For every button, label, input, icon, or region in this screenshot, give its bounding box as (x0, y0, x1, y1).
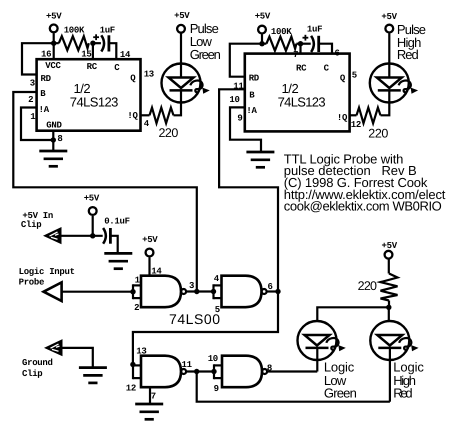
wire C3 to ground (110, 236, 117, 253)
svg-text:9: 9 (214, 384, 219, 394)
svg-text:12: 12 (126, 383, 136, 393)
svg-text:4: 4 (214, 274, 220, 284)
svg-text:15: 15 (81, 49, 91, 59)
svg-text:+5V: +5V (174, 11, 190, 21)
wire pin 1 A to ground (21, 108, 53, 141)
+5V terminal T6 pin 14 (142, 235, 158, 256)
wire node 11 to U3D (187, 370, 214, 372)
wire T1 to node (53, 33, 55, 43)
svg-text:+5V: +5V (255, 12, 271, 22)
+5V terminal T4 (381, 12, 397, 33)
wire R4 to LED D2 (381, 91, 390, 116)
svg-text:2: 2 (134, 303, 139, 313)
wire T7 to R5 (388, 259, 390, 273)
Logic Input Probe connector A2 (19, 267, 75, 301)
junction node 3 (194, 289, 199, 294)
wire U3D output to LED D3 (268, 370, 318, 372)
svg-text:100K: 100K (64, 26, 85, 36)
svg-text:1uF: 1uF (100, 26, 115, 36)
resistor R3 100K (266, 27, 296, 51)
wire pin 9 A to ground (230, 107, 261, 152)
svg-text:Q: Q (130, 73, 136, 83)
wire node to RD pin 11 (230, 44, 267, 77)
wire LED D3 cathode (316, 348, 318, 371)
svg-text:RC: RC (296, 64, 307, 74)
svg-text:RD: RD (249, 74, 260, 84)
svg-text:+5V: +5V (46, 12, 62, 22)
svg-text:+5V: +5V (381, 12, 397, 22)
svg-text:16: 16 (41, 49, 51, 59)
wire pin 12 (350, 114, 357, 116)
wire C1 to pin 14 (109, 43, 116, 59)
ground under U1 (39, 151, 67, 166)
svg-text:!Q: !Q (127, 111, 138, 121)
svg-text:2: 2 (28, 95, 33, 105)
svg-text:7: 7 (151, 391, 156, 401)
wire pin 15 (92, 43, 94, 59)
svg-text:74LS123: 74LS123 (70, 95, 119, 110)
capacitor C2 1uF (301, 25, 323, 52)
wire pin 2 B to node 3 feeder (13, 92, 197, 292)
svg-text:!Q: !Q (337, 113, 348, 123)
svg-text:220: 220 (358, 279, 377, 293)
svg-text:+5V: +5V (84, 194, 100, 204)
svg-text:!A: !A (246, 106, 257, 116)
wire U3C pin 7 to ground (149, 387, 151, 404)
Ground Clip connector A3 (22, 339, 63, 379)
svg-text:Probe: Probe (19, 278, 45, 288)
svg-text:Red: Red (397, 47, 419, 62)
wire T5 to bypass node (92, 216, 94, 236)
svg-text:!A: !A (39, 105, 50, 115)
svg-text:Ground: Ground (22, 358, 53, 368)
svg-text:9: 9 (237, 113, 242, 123)
wire A1 to C3 (62, 235, 103, 237)
nand gate U3A (133, 275, 194, 313)
svg-text:Clip: Clip (22, 369, 42, 379)
wire T2 to LED D1 (180, 33, 182, 78)
title text block (284, 151, 446, 213)
wire node 3 to U3B (187, 290, 214, 292)
wire T6 to U3A pin 14 (148, 257, 150, 276)
wire node 11 to LED D4 bottom (197, 372, 390, 402)
wire node 6 to U3C input (133, 292, 278, 365)
nand gate U3C (126, 347, 193, 394)
svg-text:Q: Q (340, 74, 346, 84)
+5V terminal T1 (46, 12, 62, 33)
junction node 11 (194, 369, 199, 374)
+5V In Clip connector A1 (21, 211, 62, 244)
capacitor C3 0.1uF (103, 216, 130, 243)
wire U3B output to node 6 (267, 290, 278, 292)
junction U3B input (211, 289, 216, 294)
wire T3 to node (261, 34, 263, 43)
wire T4 to LED D2 (388, 33, 390, 78)
svg-text:GND: GND (46, 121, 62, 131)
wire A3 to ground (63, 348, 93, 367)
+5V terminal T2 (174, 11, 190, 33)
resistor R4 220 (357, 108, 389, 141)
junction node 6 (275, 289, 280, 294)
junction U3A input (130, 289, 135, 294)
svg-text:C: C (324, 64, 330, 74)
wire pin 4 (141, 114, 150, 116)
LED D1 Pulse Low Green (162, 21, 221, 102)
svg-text:B: B (249, 90, 255, 100)
svg-text:3: 3 (189, 281, 194, 291)
+5V terminal T3 (255, 12, 271, 34)
wire pin 8 GND (52, 130, 54, 152)
svg-text:74LS123: 74LS123 (278, 95, 326, 110)
op-amp U2 box 74LS123 second half (245, 54, 350, 132)
svg-text:0.1uF: 0.1uF (104, 216, 130, 226)
svg-text:4: 4 (144, 119, 150, 129)
resistor R2 220 (150, 108, 179, 140)
wire probe to gate U3A (62, 291, 133, 293)
junction U3D input (211, 369, 216, 374)
svg-text:100K: 100K (271, 27, 292, 37)
junction node at pin 7 (298, 41, 303, 46)
svg-text:220: 220 (368, 126, 388, 140)
resistor R1 100K (59, 26, 89, 51)
junction node U2 vcc (259, 41, 264, 46)
ground under C3 (104, 253, 132, 268)
junction LED feed (386, 305, 391, 310)
svg-text:11: 11 (182, 360, 193, 370)
LED D3 Logic Low Green (298, 321, 357, 401)
wire junction to LED D3 anode (317, 307, 389, 321)
svg-text:VCC: VCC (45, 61, 61, 71)
svg-text:74LS00: 74LS00 (169, 311, 220, 327)
svg-text:Logic Input: Logic Input (19, 267, 75, 277)
svg-text:Clip: Clip (21, 220, 41, 230)
svg-text:12: 12 (351, 120, 361, 130)
svg-text:+5V: +5V (382, 241, 398, 251)
svg-text:5: 5 (352, 71, 357, 81)
junction node at pin 16 (51, 41, 56, 46)
LED D4 Logic High Red (370, 321, 424, 401)
junction bypass node (90, 233, 95, 238)
wire pin 7 (296, 43, 300, 45)
wire R5 to junction (388, 301, 390, 308)
junction pin1-pin8 (51, 137, 56, 142)
wire C2 to pin 6 (319, 44, 332, 54)
svg-text:10: 10 (208, 354, 218, 364)
svg-text:Red: Red (393, 386, 412, 401)
wire node to resistor and RD pin 3 (22, 43, 59, 74)
svg-text:3: 3 (30, 79, 35, 89)
svg-text:1uF: 1uF (307, 25, 322, 35)
LED D2 Pulse High Red (370, 22, 426, 103)
svg-text:1: 1 (135, 275, 141, 285)
svg-text:B: B (40, 89, 46, 99)
capacitor C1 1uF (93, 26, 115, 52)
junction node at pin 15 (90, 41, 95, 46)
svg-text:220: 220 (159, 126, 179, 140)
wire pin 10 B to node 6 feeder (219, 89, 278, 291)
svg-text:13: 13 (144, 70, 154, 80)
op-amp U1 box 74LS123 first half (37, 59, 141, 131)
svg-text:RD: RD (41, 74, 52, 84)
wire LED D4 cathode (389, 348, 391, 402)
wire pin 16 (53, 43, 55, 59)
svg-text:Green: Green (324, 386, 357, 401)
svg-text:+5V: +5V (142, 235, 158, 245)
nand gate U3B (214, 274, 273, 315)
junction U3C input (130, 362, 135, 367)
nand gate U3D (208, 354, 272, 394)
svg-text:13: 13 (136, 347, 146, 357)
svg-text:10: 10 (229, 95, 239, 105)
svg-text:1: 1 (30, 112, 36, 122)
+5V terminal T7 (382, 241, 398, 259)
svg-text:RC: RC (87, 62, 98, 72)
svg-text:8: 8 (57, 134, 62, 144)
wire junction to LED D4 anode (388, 307, 390, 321)
ground under U3C (135, 404, 163, 419)
svg-text:C: C (114, 63, 120, 73)
+5V terminal T5 bypass (84, 194, 100, 215)
ground under U2 (246, 152, 274, 167)
svg-text:Green: Green (190, 47, 221, 62)
resistor R5 220 vertical (358, 274, 398, 301)
ground under clip (79, 368, 107, 383)
svg-text:cook@eklektix.com WB0RIO: cook@eklektix.com WB0RIO (284, 199, 442, 214)
wire R2 to LED D1 (174, 91, 182, 116)
